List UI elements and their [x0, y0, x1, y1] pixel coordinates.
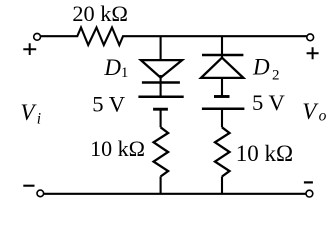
svg-text:D: D: [252, 54, 270, 79]
svg-text:5 V: 5 V: [92, 92, 126, 117]
svg-text:D: D: [103, 55, 121, 80]
svg-text:5 V: 5 V: [252, 90, 286, 115]
svg-text:o: o: [319, 107, 327, 124]
svg-text:i: i: [37, 111, 41, 128]
svg-text:20 kΩ: 20 kΩ: [72, 1, 128, 26]
svg-text:10 kΩ: 10 kΩ: [90, 136, 145, 161]
svg-text:1: 1: [121, 65, 128, 81]
svg-text:10 kΩ: 10 kΩ: [236, 141, 293, 166]
svg-text:2: 2: [272, 68, 280, 84]
